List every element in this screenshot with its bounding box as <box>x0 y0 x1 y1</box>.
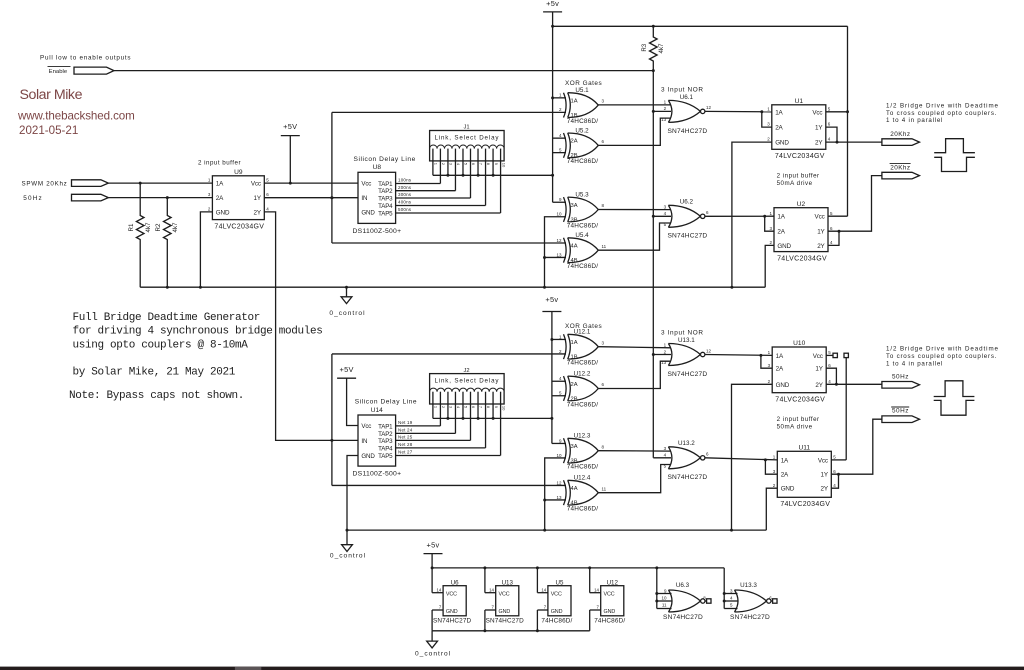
svg-text:4A: 4A <box>571 244 578 250</box>
svg-text:SN74HC27D: SN74HC27D <box>667 371 707 378</box>
svg-text:10: 10 <box>501 163 506 168</box>
svg-text:+5V: +5V <box>339 365 353 374</box>
svg-text:GND: GND <box>551 609 563 615</box>
wire +5V feed vertical lower XOR <box>550 312 566 444</box>
wire U2 1Y to 20Khz-bar flag <box>828 176 882 232</box>
wire 3B/4B ground chain <box>543 217 566 287</box>
resistor R1 <box>128 183 152 287</box>
svg-text:GND: GND <box>781 486 795 493</box>
svg-text:Vcc: Vcc <box>361 181 371 188</box>
wire U11 Vcc to drop <box>831 459 846 461</box>
ground 0_control G1 <box>329 287 365 317</box>
svg-text:TAP2: TAP2 <box>378 188 393 195</box>
svg-text:SN74HC27D: SN74HC27D <box>667 233 707 240</box>
wire U14 GND to ground <box>346 456 359 545</box>
input flag 50Hz <box>23 194 108 202</box>
svg-text:1: 1 <box>208 178 211 183</box>
svg-text:50Hz: 50Hz <box>892 408 909 415</box>
svg-text:U12: U12 <box>607 579 619 586</box>
svg-text:R3: R3 <box>641 43 648 51</box>
svg-text:4: 4 <box>730 596 733 601</box>
svg-text:1A: 1A <box>781 457 789 464</box>
wire U5.1 out to U6.1 pin1 <box>598 104 671 106</box>
svg-text:1: 1 <box>767 107 770 112</box>
bypass IC U6 <box>433 579 472 624</box>
svg-text:6: 6 <box>706 210 709 215</box>
wire +5V rail right vertical <box>846 26 849 216</box>
svg-text:50Hz: 50Hz <box>23 195 43 202</box>
svg-text:6: 6 <box>828 122 831 127</box>
bypass IC U13 <box>486 579 525 624</box>
svg-text:2021-05-21: 2021-05-21 <box>19 124 78 137</box>
svg-text:1B: 1B <box>571 113 578 119</box>
wire U12.1 out to U13.1 pin1 <box>598 347 671 348</box>
wire U13.3 input tie <box>723 568 738 609</box>
svg-text:11: 11 <box>662 603 667 608</box>
svg-text:U5.1: U5.1 <box>575 87 589 94</box>
svg-text:8: 8 <box>486 163 491 166</box>
connector J2 <box>430 368 507 411</box>
svg-text:11: 11 <box>602 486 607 491</box>
svg-text:74LVC2034GV: 74LVC2034GV <box>780 501 830 508</box>
svg-text:50mA drive: 50mA drive <box>777 423 813 430</box>
annotation text block line 1 <box>73 312 261 324</box>
svg-text:4A: 4A <box>571 486 578 492</box>
svg-text:4k7: 4k7 <box>658 43 665 54</box>
caption XOR Gates (U5) <box>565 80 602 87</box>
svg-text:2Y: 2Y <box>815 382 823 389</box>
svg-text:4k7: 4k7 <box>172 222 179 233</box>
svg-text:8: 8 <box>486 406 491 409</box>
power +5V P4 (U14) <box>337 365 358 426</box>
wire U1 1Y/2Y tie <box>826 127 839 144</box>
xor gate U12.1 <box>559 329 605 367</box>
wire Enable net horizontal <box>114 69 655 72</box>
caption Silicon Delay Line (U8) <box>354 156 416 163</box>
svg-text:3: 3 <box>449 406 454 409</box>
svg-text:2Y: 2Y <box>817 243 825 250</box>
wire U5.4 out to U6.2 pin5 <box>598 223 671 250</box>
svg-text:13: 13 <box>556 252 562 257</box>
wire lower direct-signal branch (1B/4A routing) <box>330 354 566 486</box>
svg-text:9: 9 <box>559 438 562 443</box>
output flag 20Khz inverted <box>882 164 920 179</box>
svg-text:VCC: VCC <box>446 592 457 598</box>
svg-text:TAP3: TAP3 <box>378 438 393 445</box>
svg-text:4: 4 <box>559 376 562 381</box>
svg-text:2B: 2B <box>571 153 578 159</box>
svg-text:1: 1 <box>768 350 771 355</box>
svg-text:2: 2 <box>767 137 770 142</box>
wire SPWM to U9 1A <box>108 182 212 185</box>
svg-text:Net 25: Net 25 <box>398 435 413 440</box>
wire U12.4 out to U13.2 pin5 <box>598 465 671 493</box>
wire ground bus (top section) <box>140 286 765 289</box>
svg-text:4: 4 <box>456 406 461 409</box>
svg-text:4: 4 <box>664 211 667 216</box>
svg-text:100ns: 100ns <box>398 178 412 183</box>
svg-text:12: 12 <box>706 105 712 110</box>
svg-text:1: 1 <box>769 211 772 216</box>
wire U11 GND to lower ground bus <box>766 488 777 530</box>
buffer U1 74LVC2034GV <box>767 98 831 160</box>
svg-text:GND: GND <box>775 140 789 147</box>
nor gate U13.3 <box>730 582 777 621</box>
svg-text:3: 3 <box>602 340 605 345</box>
xor gate U12.4 <box>556 475 606 513</box>
svg-text:IN: IN <box>361 438 367 445</box>
wire U6.2 out to U2 <box>705 215 774 232</box>
svg-text:Vcc: Vcc <box>251 181 261 188</box>
svg-text:Vcc: Vcc <box>815 214 825 221</box>
svg-text:74HC86D/: 74HC86D/ <box>567 158 598 165</box>
svg-text:TAP5: TAP5 <box>378 211 393 218</box>
power +5V P2 (U9/U8) <box>281 122 300 183</box>
input flag Enable <box>48 67 115 76</box>
svg-text:6: 6 <box>602 139 605 144</box>
svg-text:5: 5 <box>828 107 831 112</box>
wire J1 common bus to XOR <box>433 174 554 177</box>
labels tap delays <box>398 178 412 213</box>
wire U1 2Y to 20Khz flag <box>826 141 882 143</box>
svg-text:Pull low to enable outputs: Pull low to enable outputs <box>40 54 131 61</box>
caption 3 Input NOR (U6.1) <box>661 86 704 93</box>
svg-text:Vcc: Vcc <box>813 353 823 360</box>
buffer U9 74LVC2034GV <box>208 169 269 231</box>
svg-text:for driving 4 synchronous brid: for driving 4 synchronous bridge modules <box>73 326 323 338</box>
svg-text:3: 3 <box>768 363 771 368</box>
svg-text:11: 11 <box>602 244 607 249</box>
wire U10 1Y/2Y tie <box>826 368 838 386</box>
wire U9 2Y down to U14 IN <box>264 212 358 441</box>
svg-text:U13: U13 <box>502 579 514 586</box>
svg-text:U6.1: U6.1 <box>680 94 694 101</box>
svg-text:8: 8 <box>602 444 605 449</box>
svg-text:9: 9 <box>559 197 562 202</box>
svg-text:U14: U14 <box>371 407 383 414</box>
svg-text:14: 14 <box>489 587 494 592</box>
svg-text:8: 8 <box>703 596 706 601</box>
svg-text:VCC: VCC <box>604 592 615 598</box>
svg-text:U6: U6 <box>451 579 459 586</box>
svg-text:14: 14 <box>437 587 442 592</box>
svg-text:2Y: 2Y <box>815 140 823 147</box>
svg-text:7: 7 <box>597 605 600 610</box>
svg-text:R2: R2 <box>155 223 162 231</box>
xor gate U12.3 <box>556 433 604 471</box>
svg-text:TAP1: TAP1 <box>378 423 393 430</box>
svg-text:4: 4 <box>664 453 667 458</box>
svg-text:2: 2 <box>208 207 211 212</box>
svg-text:+5v: +5v <box>545 295 558 304</box>
svg-text:74HC86D/: 74HC86D/ <box>594 618 625 625</box>
svg-text:14: 14 <box>594 587 599 592</box>
svg-text:GND: GND <box>777 243 791 250</box>
svg-text:J2: J2 <box>464 368 470 374</box>
svg-text:2A: 2A <box>781 472 789 479</box>
svg-text:74HC86D/: 74HC86D/ <box>567 360 598 367</box>
svg-text:2: 2 <box>441 163 446 166</box>
svg-text:GND: GND <box>361 453 375 460</box>
svg-text:2 input buffer: 2 input buffer <box>198 160 241 167</box>
output flag 50Hz inverted <box>882 407 920 423</box>
wire bypass ground bus <box>432 629 590 632</box>
svg-text:1A: 1A <box>571 98 578 104</box>
svg-text:2: 2 <box>773 483 776 488</box>
ground 0_control G3 <box>415 631 451 658</box>
svg-text:74HC86D/: 74HC86D/ <box>567 506 598 513</box>
svg-text:U13.2: U13.2 <box>678 440 695 447</box>
svg-text:20Khz: 20Khz <box>890 165 910 172</box>
svg-text:74HC86D/: 74HC86D/ <box>567 118 598 125</box>
svg-text:5: 5 <box>830 211 833 216</box>
svg-text:1Y: 1Y <box>815 366 823 373</box>
svg-text:Note: Bypass caps not shown.: Note: Bypass caps not shown. <box>69 390 244 402</box>
svg-text:5: 5 <box>828 350 831 355</box>
wires bypass GND drops <box>432 610 601 631</box>
svg-text:U12.2: U12.2 <box>574 370 591 377</box>
svg-text:74HC86D/: 74HC86D/ <box>567 263 598 270</box>
svg-text:400ns: 400ns <box>398 200 412 205</box>
wires J2 pin drops <box>433 392 501 456</box>
svg-text:6: 6 <box>602 382 605 387</box>
svg-text:4B: 4B <box>571 501 578 507</box>
svg-text:Full Bridge Deadtime Generator: Full Bridge Deadtime Generator <box>73 312 261 324</box>
svg-text:6: 6 <box>471 406 476 409</box>
svg-text:J1: J1 <box>464 125 470 131</box>
svg-text:4: 4 <box>456 163 461 166</box>
annotation text block line 5 <box>69 390 244 402</box>
wire U12.3 out to U13.2 pin3 <box>598 450 671 452</box>
input flag SPWM 20Khz <box>22 180 109 188</box>
delay line U14 DS1100Z-500+ <box>353 407 402 478</box>
wire U1 GND to ground bus <box>732 142 772 287</box>
svg-text:3: 3 <box>449 163 454 166</box>
svg-text:74HC86D/: 74HC86D/ <box>567 222 598 229</box>
annotation: Pull low to enable outputs <box>40 54 131 61</box>
svg-text:8: 8 <box>602 203 605 208</box>
svg-text:4: 4 <box>828 379 831 384</box>
svg-text:5: 5 <box>464 163 469 166</box>
svg-text:Vcc: Vcc <box>361 423 371 430</box>
svg-text:using opto couplers @ 8-10mA: using opto couplers @ 8-10mA <box>73 339 249 351</box>
svg-text:1: 1 <box>559 93 562 98</box>
svg-text:GND: GND <box>499 609 511 615</box>
wires U14 taps to J2 <box>396 426 501 456</box>
svg-text:TAP3: TAP3 <box>378 196 393 203</box>
wire U13.1 out to U10 <box>705 354 772 368</box>
wire U11 1Y/2Y tie <box>831 473 840 489</box>
wire ground bus (lower section) <box>347 529 766 532</box>
svg-text:2A: 2A <box>775 125 783 132</box>
svg-text:7: 7 <box>492 605 495 610</box>
svg-text:14: 14 <box>541 587 546 592</box>
svg-text:6: 6 <box>471 163 476 166</box>
svg-text:2A: 2A <box>571 139 578 145</box>
caption XOR Gates (U12) <box>565 323 602 330</box>
svg-text:6: 6 <box>828 363 831 368</box>
annotation text block line 3 <box>73 339 249 351</box>
svg-text:VCC: VCC <box>551 592 562 598</box>
wire J2 common bus to XOR <box>433 417 552 420</box>
svg-text:4: 4 <box>559 133 562 138</box>
svg-text:10: 10 <box>556 453 562 458</box>
svg-text:5: 5 <box>730 603 733 608</box>
svg-text:+5v: +5v <box>426 541 439 550</box>
svg-text:GND: GND <box>446 609 458 615</box>
caption 2 input buffer (U9) <box>198 160 241 167</box>
svg-text:2A: 2A <box>777 229 785 236</box>
buffer U11 74LVC2034GV <box>773 444 837 508</box>
svg-text:13: 13 <box>661 117 667 122</box>
svg-text:1/2 Bridge Drive with Deadtime: 1/2 Bridge Drive with Deadtime <box>886 102 999 109</box>
svg-text:U1: U1 <box>795 98 804 105</box>
resistor R2 <box>155 198 179 288</box>
svg-text:200ns: 200ns <box>398 185 412 190</box>
wire bypass +5V rail <box>431 554 725 593</box>
xor gate U5.2 <box>559 127 605 165</box>
nor gate U6.3 <box>661 582 711 621</box>
power +5V P5 (bypass) <box>424 541 443 554</box>
svg-text:74LVC2034GV: 74LVC2034GV <box>775 153 825 160</box>
svg-text:7: 7 <box>544 605 547 610</box>
svg-text:50Hz: 50Hz <box>892 374 909 381</box>
svg-text:0_control: 0_control <box>329 310 365 317</box>
xor gate U5.3 <box>556 191 604 229</box>
svg-text:1Y: 1Y <box>820 472 828 479</box>
wire U5.3 out to U6.2 pin3 <box>598 209 671 211</box>
svg-text:Vcc: Vcc <box>818 457 828 464</box>
wire U6.1 out to U1 <box>705 110 772 127</box>
title Solar Mike <box>20 87 83 103</box>
svg-text:0_control: 0_control <box>415 651 451 658</box>
svg-text:3: 3 <box>730 589 733 594</box>
svg-text:50mA drive: 50mA drive <box>777 180 813 187</box>
svg-text:1A: 1A <box>776 353 784 360</box>
svg-text:74HC86D/: 74HC86D/ <box>567 401 598 408</box>
svg-text:74LVC2034GV: 74LVC2034GV <box>777 255 827 262</box>
svg-text:2: 2 <box>559 349 562 354</box>
svg-text:TAP1: TAP1 <box>378 181 393 188</box>
xor gate U12.2 <box>559 370 605 408</box>
svg-text:Vcc: Vcc <box>812 109 822 116</box>
svg-text:R1: R1 <box>128 223 135 231</box>
caption Silicon Delay Line (U14) <box>355 398 417 405</box>
nor gate U13.1 <box>661 337 711 378</box>
svg-text:+5v: +5v <box>546 0 559 8</box>
svg-text:4B: 4B <box>571 258 578 264</box>
svg-text:500ns: 500ns <box>398 207 412 212</box>
svg-text:SN74HC27D: SN74HC27D <box>667 128 707 135</box>
svg-text:TAP5: TAP5 <box>378 453 393 460</box>
nor gate U6.2 <box>664 199 709 240</box>
svg-text:U8: U8 <box>373 164 382 171</box>
svg-text:3 Input NOR: 3 Input NOR <box>661 86 704 93</box>
svg-text:Solar Mike: Solar Mike <box>20 87 83 103</box>
xor gate U5.1 <box>559 87 605 125</box>
svg-text:6: 6 <box>830 226 833 231</box>
svg-text:10: 10 <box>556 212 562 217</box>
svg-text:1Y: 1Y <box>815 125 823 132</box>
svg-text:SN74HC27D: SN74HC27D <box>663 614 703 621</box>
connector J1 <box>430 125 507 168</box>
svg-text:3: 3 <box>602 99 605 104</box>
wire U9 Vcc to U8 Vcc <box>264 182 358 185</box>
svg-text:U5.3: U5.3 <box>575 191 589 198</box>
svg-text:7: 7 <box>479 406 484 409</box>
svg-text:5: 5 <box>559 148 562 153</box>
caption 1/2 Bridge Drive (lower) <box>886 346 999 368</box>
svg-text:9: 9 <box>494 406 499 409</box>
svg-text:U12.3: U12.3 <box>574 433 591 440</box>
svg-text:DS1100Z-500+: DS1100Z-500+ <box>353 228 402 235</box>
svg-text:2 input buffer: 2 input buffer <box>777 173 820 180</box>
svg-text:5: 5 <box>833 455 836 460</box>
svg-text:+5V: +5V <box>283 122 297 131</box>
svg-text:10: 10 <box>501 406 506 411</box>
caption 2 input buffer 50mA drive (lower) <box>777 416 820 431</box>
svg-text:Net 24: Net 24 <box>398 428 413 433</box>
bottom taskbar edge <box>0 667 1024 670</box>
svg-text:1: 1 <box>664 343 667 348</box>
svg-text:3: 3 <box>208 192 211 197</box>
svg-text:12: 12 <box>556 480 562 485</box>
svg-text:3: 3 <box>664 446 667 451</box>
svg-text:13: 13 <box>556 495 562 500</box>
svg-text:7: 7 <box>439 605 442 610</box>
svg-text:1/2 Bridge Drive with Deadtime: 1/2 Bridge Drive with Deadtime <box>886 346 999 353</box>
svg-text:1A: 1A <box>777 214 785 221</box>
nor gate U13.2 <box>664 440 709 481</box>
svg-text:2B: 2B <box>571 396 578 402</box>
svg-text:www.thebackshed.com: www.thebackshed.com <box>17 110 135 123</box>
svg-text:SPWM 20Khz: SPWM 20Khz <box>22 181 68 188</box>
svg-text:1A: 1A <box>775 109 783 116</box>
svg-text:Net 27: Net 27 <box>398 450 413 455</box>
caption 3 Input NOR (U13.1) <box>661 330 704 337</box>
wire U10 GND to lower ground bus <box>732 384 773 530</box>
svg-text:1A: 1A <box>216 181 224 188</box>
svg-text:4: 4 <box>833 483 836 488</box>
nor gate U6.1 <box>661 94 711 135</box>
svg-text:2: 2 <box>559 107 562 112</box>
svg-text:U9: U9 <box>234 169 243 176</box>
wire lower 3B/4B ground chain <box>543 458 566 530</box>
annotation text block line 2 <box>73 326 323 338</box>
svg-text:3B: 3B <box>571 217 578 223</box>
wire U6.3 input tie <box>655 568 671 609</box>
caption 1/2 Bridge Drive (top) <box>886 102 999 124</box>
svg-text:GND: GND <box>604 609 616 615</box>
svg-text:SN74HC27D: SN74HC27D <box>486 618 525 625</box>
svg-text:9: 9 <box>664 589 667 594</box>
svg-text:13: 13 <box>661 360 667 365</box>
svg-text:6: 6 <box>833 469 836 474</box>
svg-text:20Khz: 20Khz <box>890 131 910 138</box>
svg-text:U12.4: U12.4 <box>574 475 591 482</box>
wire U13.2 out to U11 <box>705 458 777 474</box>
svg-text:U5.4: U5.4 <box>575 232 589 239</box>
wire U2 Vcc to rail <box>828 215 848 217</box>
svg-text:XOR Gates: XOR Gates <box>565 80 602 87</box>
wire U9 GND to ground bus <box>200 212 212 287</box>
svg-text:12: 12 <box>706 348 712 353</box>
svg-text:Silicon Delay Line: Silicon Delay Line <box>354 156 416 163</box>
svg-text:2: 2 <box>664 349 667 354</box>
svg-text:TAP2: TAP2 <box>378 431 393 438</box>
svg-text:U12.1: U12.1 <box>574 329 591 336</box>
wire U9 1Y to U8 IN <box>264 196 358 199</box>
